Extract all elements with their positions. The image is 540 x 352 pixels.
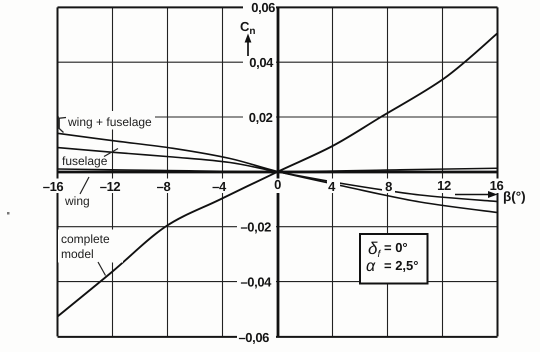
- curve label: wing + fuselage: [59, 111, 155, 133]
- svg-text:= 0°: = 0°: [384, 240, 408, 255]
- x-axis (thick): [58, 171, 498, 174]
- svg-text:–8: –8: [157, 179, 171, 194]
- svg-text:12: 12: [437, 178, 451, 193]
- y-axis (thick): [277, 7, 280, 336]
- svg-text:0: 0: [274, 177, 281, 192]
- svg-text:model: model: [61, 247, 94, 261]
- svg-text:fuselage: fuselage: [62, 154, 108, 168]
- svg-text:α: α: [366, 258, 376, 275]
- svg-text:–4: –4: [212, 179, 227, 194]
- thin horizontal gridlines: [58, 62, 498, 281]
- svg-text:–0,02: –0,02: [240, 220, 271, 235]
- svg-text:16: 16: [490, 178, 504, 193]
- svg-text:0,04: 0,04: [249, 55, 274, 70]
- svg-text:0,06: 0,06: [251, 0, 275, 15]
- y tick labels (left of axis, with white breaks): [237, 0, 276, 345]
- thin vertical gridlines: [113, 7, 443, 336]
- beta axis arrow and label: [455, 189, 526, 204]
- svg-text:–0,06: –0,06: [238, 330, 269, 345]
- svg-text:–16: –16: [43, 179, 64, 194]
- svg-text:wing + fuselage: wing + fuselage: [67, 115, 152, 129]
- curve: fuselage: [58, 148, 498, 202]
- svg-text:wing: wing: [64, 194, 90, 208]
- svg-text:= 2,5°: = 2,5°: [384, 258, 418, 273]
- curve label: fuselage: [60, 149, 118, 169]
- curve: wing + fuselage: [58, 133, 498, 212]
- curve: complete model: [58, 33, 498, 316]
- curve: wing: [58, 168, 498, 171]
- svg-text:complete: complete: [61, 232, 110, 246]
- svg-text:–0,04: –0,04: [240, 275, 272, 290]
- small scan speck: [7, 212, 10, 215]
- curve label: complete model: [58, 230, 123, 276]
- svg-text:0,02: 0,02: [249, 110, 273, 125]
- legend box: [360, 234, 428, 284]
- svg-text:–12: –12: [100, 179, 121, 194]
- plot border: [58, 7, 498, 337]
- x tick labels (below axis, with white breaks over gridlines): [42, 177, 506, 194]
- svg-text:β(°): β(°): [503, 189, 526, 204]
- Cn label with up arrow: [240, 19, 256, 56]
- svg-text:8: 8: [385, 179, 392, 194]
- curve label: wing: [64, 177, 90, 208]
- svg-text:4: 4: [328, 179, 336, 194]
